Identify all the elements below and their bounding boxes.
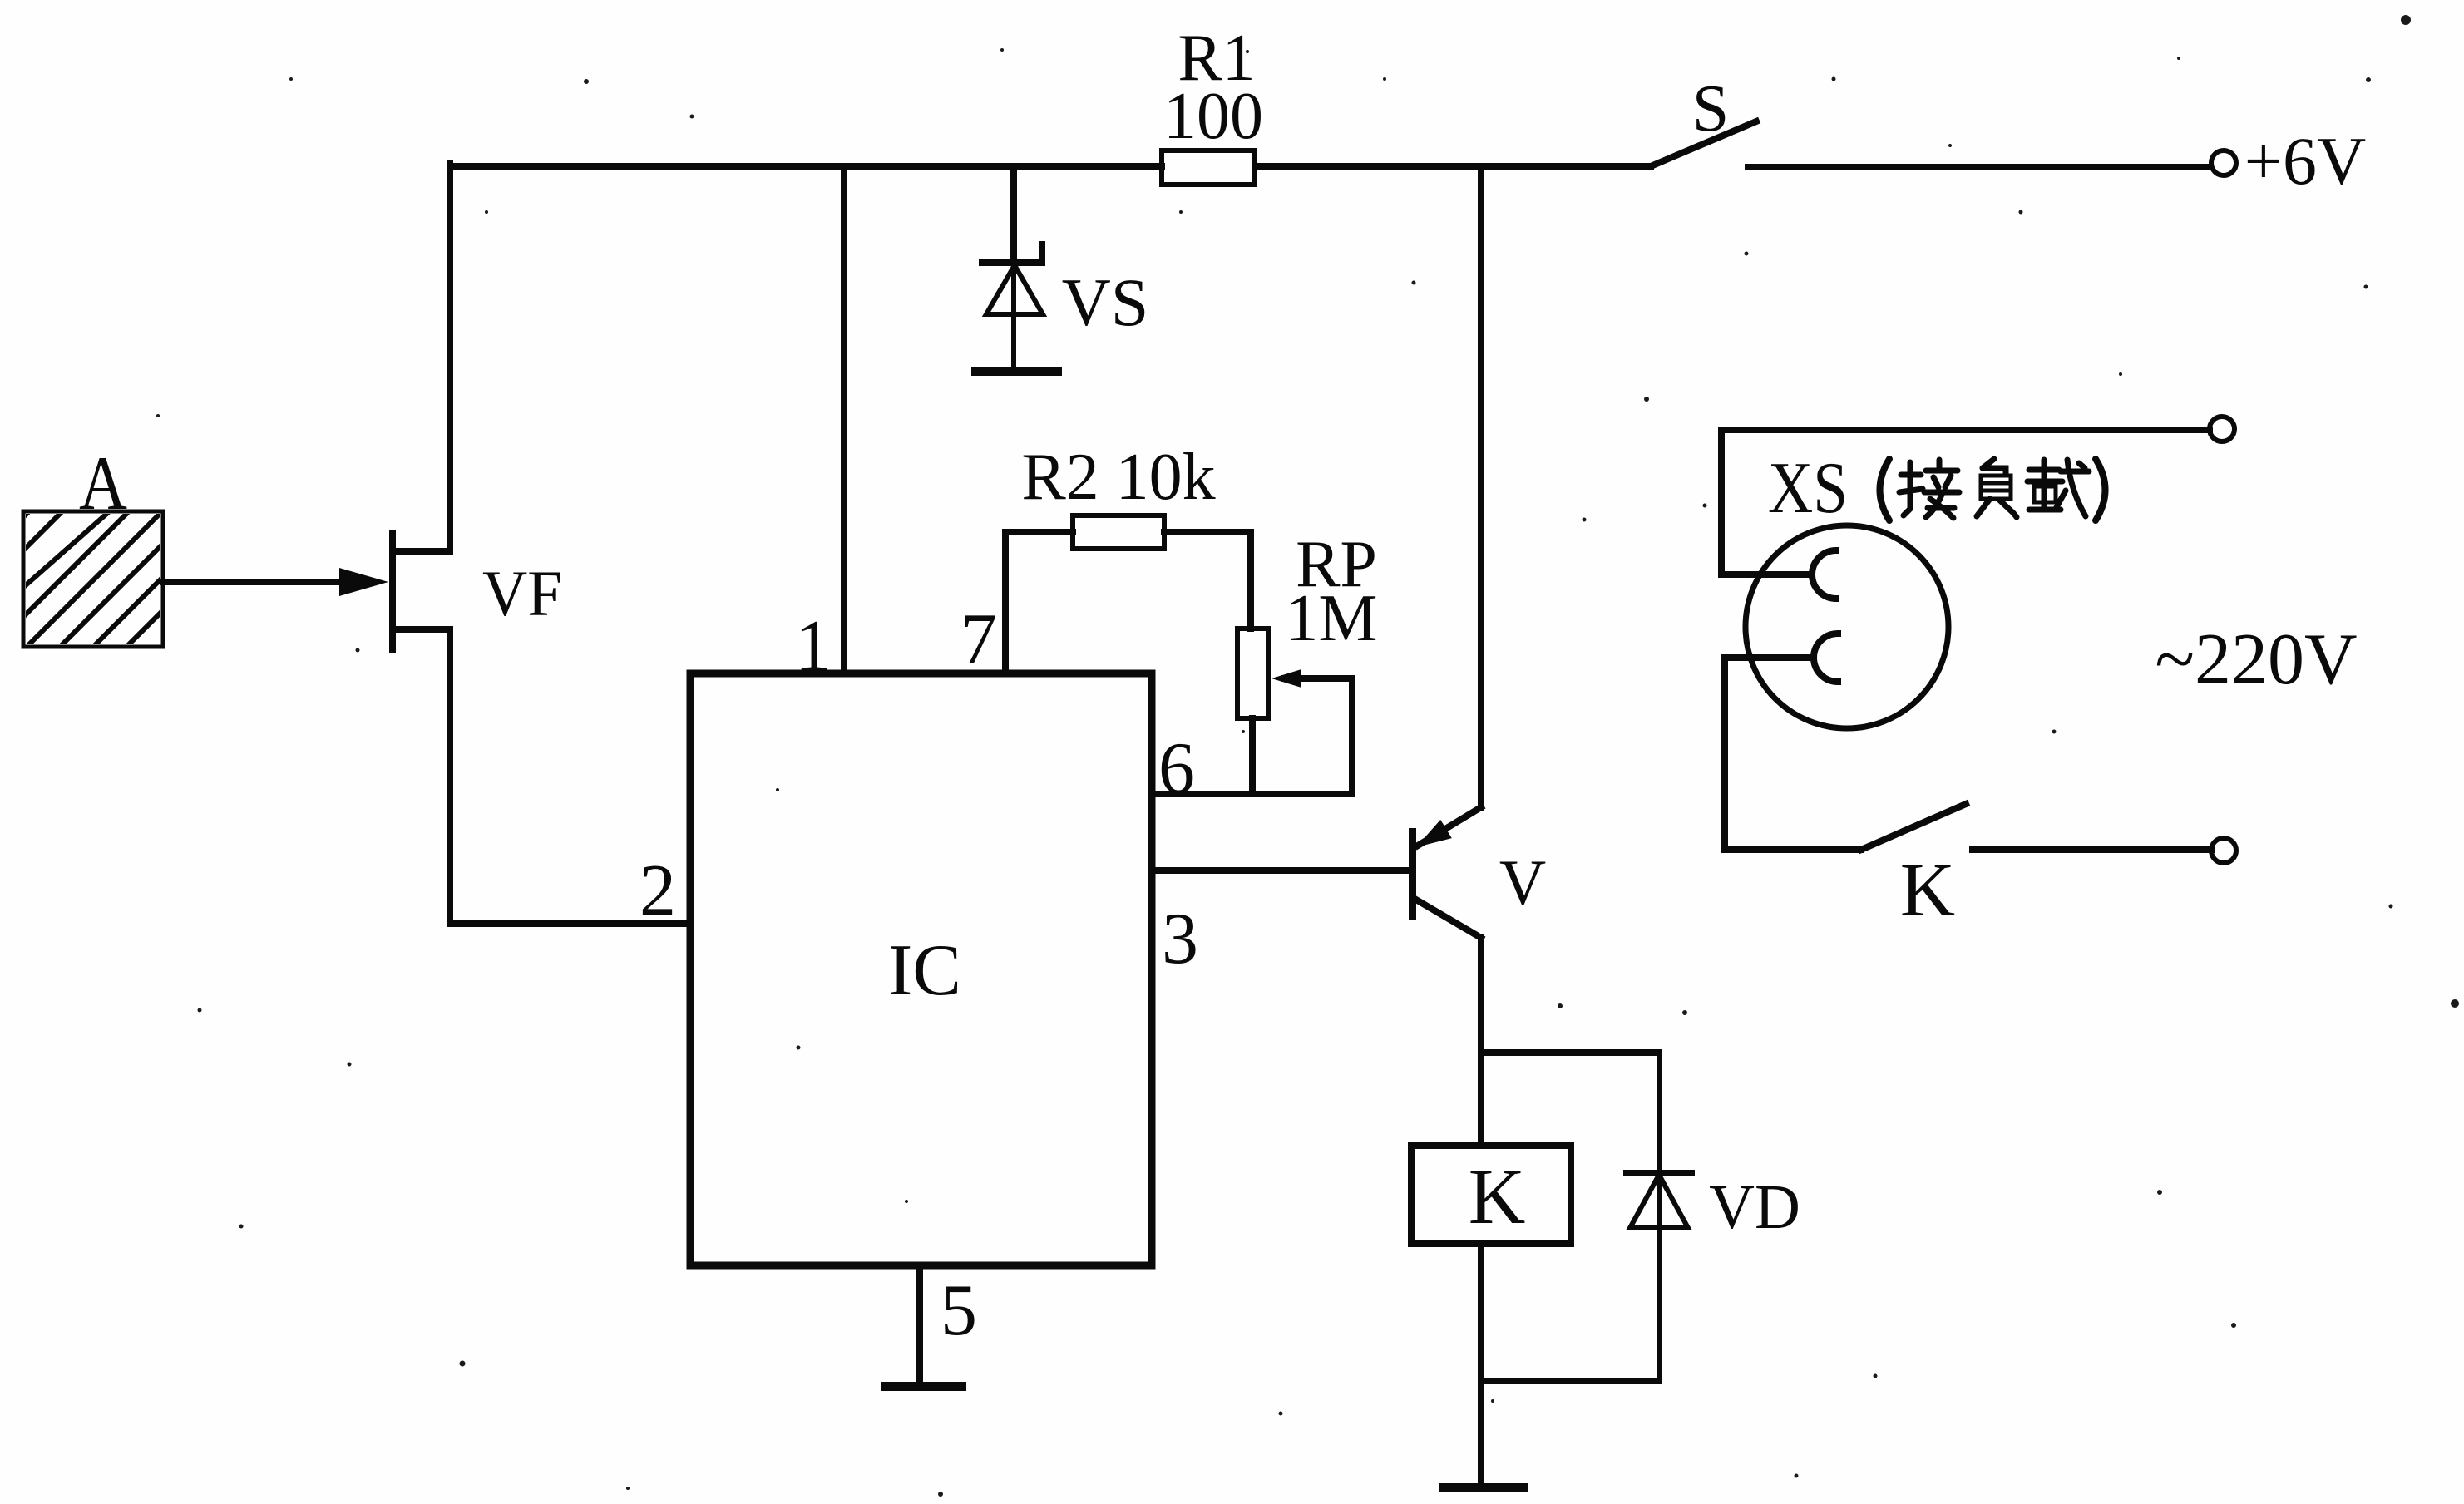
svg-text:IC: IC [888,930,961,1011]
svg-text:7: 7 [960,599,997,680]
svg-text:VD: VD [1709,1172,1800,1242]
svg-text:K: K [1900,847,1955,932]
svg-text:6: 6 [1158,728,1195,809]
svg-text:A: A [79,441,127,525]
svg-text:1M: 1M [1285,582,1377,655]
svg-text:V: V [1499,846,1546,919]
svg-text:3: 3 [1162,899,1198,979]
svg-text:1: 1 [795,606,832,687]
svg-text:S: S [1692,72,1730,145]
svg-text:VF: VF [482,557,562,629]
svg-text:XS: XS [1768,448,1848,529]
svg-text:R2 10k: R2 10k [1021,441,1215,514]
svg-text:100: 100 [1163,80,1263,153]
svg-text:~220V: ~220V [2155,619,2357,700]
svg-text:2: 2 [639,851,676,931]
svg-text:VS: VS [1062,264,1149,340]
svg-text:+6V: +6V [2244,123,2366,199]
svg-text:5: 5 [941,1270,977,1351]
svg-text:K: K [1469,1152,1526,1240]
